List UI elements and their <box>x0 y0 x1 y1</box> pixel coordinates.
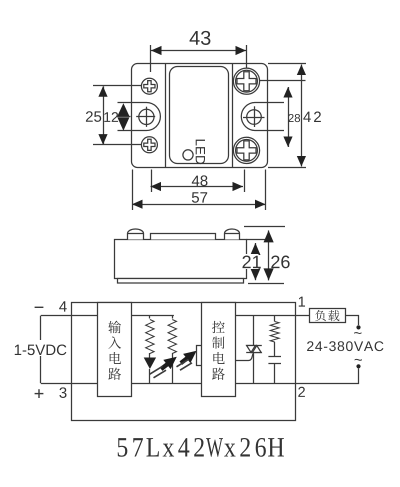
dim 42 text <box>303 112 311 122</box>
screw middle-left crosshair <box>139 109 154 124</box>
dim 26 text <box>271 256 279 269</box>
screw bottom-right outer <box>233 137 259 163</box>
screw centerline right-top <box>260 80 306 82</box>
outer circuit box <box>72 303 296 421</box>
right terminal ear <box>241 103 284 131</box>
screw bottom-left <box>141 137 157 153</box>
wire top right <box>235 315 295 317</box>
load label 载 <box>328 310 339 321</box>
terminal 4 label <box>59 301 67 311</box>
dim 21 text <box>242 256 250 269</box>
char c3 <box>212 368 225 380</box>
snubber resistor <box>274 316 276 322</box>
wire to load <box>296 315 310 317</box>
housing seam left <box>165 63 167 168</box>
resistor R1 <box>149 316 151 319</box>
side view body <box>115 240 247 279</box>
control circuit block <box>202 303 236 397</box>
triac symbol <box>246 345 262 347</box>
dim 42 extension lines <box>268 63 306 65</box>
dim 43 line <box>151 50 246 52</box>
terminal 1 label <box>299 297 305 307</box>
LED label rotated <box>196 140 205 165</box>
char 2 <box>110 352 121 364</box>
input circuit block <box>98 303 132 397</box>
screw centerline left-bottom <box>93 144 142 146</box>
dim 57 extension lines <box>132 170 134 211</box>
dim 26 extensions <box>244 226 285 228</box>
terminal 3 label <box>59 387 66 398</box>
bottom size text <box>118 438 128 457</box>
char c1 <box>212 336 224 348</box>
screw centerline left-top <box>93 85 142 87</box>
minus sign <box>35 306 44 308</box>
right terminal cap <box>225 229 240 240</box>
triac branch wire <box>253 316 255 346</box>
dim 26 line <box>268 230 270 280</box>
dim 43 text <box>190 31 200 45</box>
dim 48 text <box>192 176 200 186</box>
label panel <box>170 67 229 164</box>
tilde upper <box>354 332 361 334</box>
char c0 <box>212 321 225 333</box>
char 0 <box>108 321 121 334</box>
opto LED arrow A <box>157 352 180 374</box>
AC terminal dot lower <box>356 364 360 368</box>
housing seam right <box>232 63 234 168</box>
dim 12 arrows <box>117 103 129 116</box>
dim 48 line <box>151 186 244 188</box>
input source bracket <box>40 316 42 340</box>
dim 48 extension lines <box>151 170 153 193</box>
AC terminal dot upper <box>356 325 360 329</box>
screw top-left <box>141 78 157 94</box>
wire lower AC to box <box>296 368 359 383</box>
resistor R2 <box>172 316 174 319</box>
dim 28 line <box>288 87 290 147</box>
24-380VAC label <box>307 341 313 351</box>
wire bottom left <box>41 383 98 385</box>
dim 25 line <box>103 86 105 144</box>
base flange <box>118 279 244 284</box>
center plateau <box>151 234 216 240</box>
dim 21 extension <box>247 239 266 241</box>
load label 负 <box>315 310 326 321</box>
left terminal ear <box>118 103 161 131</box>
LED indicator circle <box>183 150 193 160</box>
opto light arrow B <box>177 346 200 368</box>
char c2 <box>213 352 224 364</box>
dim 42 line <box>301 65 303 167</box>
opto receiver notch <box>197 346 202 366</box>
dim 57 text <box>192 192 199 202</box>
wire bottom middle <box>132 383 202 385</box>
wire top left <box>41 315 98 317</box>
dim 43 extension lines <box>150 45 152 72</box>
wire load to AC <box>346 316 359 326</box>
wire top middle <box>132 315 174 317</box>
load box <box>310 309 346 323</box>
dim 12 text <box>104 112 110 122</box>
tilde lower <box>355 359 362 361</box>
screw top-right outer <box>233 68 259 94</box>
char 3 <box>108 368 121 380</box>
dim 28 text <box>288 114 293 122</box>
triac gate <box>236 354 254 361</box>
terminal 2 label <box>298 387 305 397</box>
plus sign <box>35 393 44 395</box>
1-5VDC label <box>15 345 21 355</box>
left terminal cap <box>128 229 144 240</box>
char 1 <box>108 336 121 348</box>
screw middle-right crosshair <box>247 110 262 125</box>
dim 57 line <box>132 204 266 206</box>
wire bottom right <box>235 383 295 385</box>
dim 25 text <box>86 111 93 121</box>
snubber capacitor <box>268 356 281 358</box>
LED indicator triangle <box>144 358 156 370</box>
dim 21 line <box>255 243 257 280</box>
SSR top view body <box>132 64 268 168</box>
